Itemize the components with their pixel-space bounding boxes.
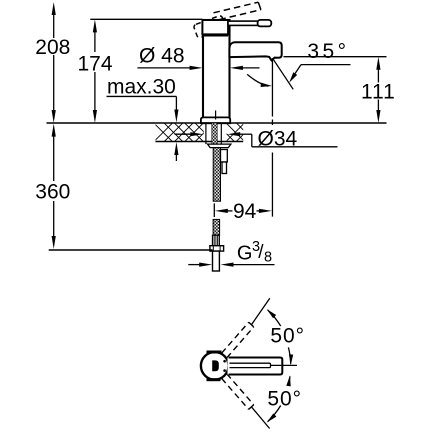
- dim 94: [213, 203, 215, 217]
- dim diameter 48: [137, 67, 192, 69]
- svg-text:Ø 48: Ø 48: [139, 44, 185, 67]
- washer: [208, 144, 231, 148]
- dim 174 line: [94, 30, 96, 112]
- top view lever slot: [230, 363, 271, 367]
- svg-text:8: 8: [264, 250, 272, 266]
- connection nut: [210, 246, 224, 251]
- flexible hose lower: [213, 219, 220, 235]
- shank tube: [206, 123, 221, 144]
- svg-text:360: 360: [35, 181, 70, 204]
- svg-text:Ø34: Ø34: [258, 128, 298, 151]
- 35 degree swing arc: [247, 74, 268, 86]
- max.30 leader: [107, 95, 177, 97]
- counter top line: [47, 122, 387, 124]
- svg-text:50°: 50°: [267, 387, 302, 410]
- dim 111: [284, 56, 387, 58]
- cap tilted position (dashed): [193, 15, 226, 38]
- top view angle line down: [251, 407, 269, 429]
- dim diameter 34: [175, 133, 193, 135]
- shank thread texture: [212, 123, 217, 144]
- cap seam: [202, 34, 228, 37]
- arc 50 bottom: [288, 376, 290, 384]
- cap: [202, 20, 228, 34]
- dim 208 line: [53, 13, 55, 112]
- hose crimp sleeve: [213, 235, 220, 246]
- svg-text:111: 111: [361, 81, 396, 104]
- outlet 35 degree direction line: [273, 58, 294, 89]
- svg-text:G: G: [237, 242, 253, 264]
- connection tube G3/8: [213, 251, 220, 271]
- svg-text:94: 94: [233, 200, 257, 223]
- top view lever centerline: [271, 364, 298, 366]
- body axis tick: [215, 111, 217, 120]
- top view dashed lever up: [222, 322, 254, 358]
- top view dashed lever down: [222, 374, 254, 410]
- top view body circle: [201, 352, 229, 380]
- 35 degree label leader: [301, 64, 351, 66]
- lever end knob: [258, 20, 272, 27]
- outlet stream centerline: [271, 58, 273, 216]
- svg-text:max.30: max.30: [107, 76, 176, 99]
- ext line cap top: [90, 18, 202, 20]
- svg-text:208: 208: [35, 36, 70, 59]
- top view angle line up: [251, 298, 269, 325]
- top view joystick: [212, 360, 219, 371]
- ext line connection end: [49, 249, 213, 251]
- svg-text:174: 174: [77, 52, 112, 75]
- counter hatch right: [216, 123, 255, 141]
- body base: [201, 117, 230, 123]
- hose side fitting: [221, 150, 228, 163]
- dim G3/8: [188, 264, 201, 266]
- flexible hose upper: [213, 148, 220, 202]
- top view lever: [228, 358, 283, 375]
- svg-text:50°: 50°: [270, 325, 305, 348]
- hose side fitting step: [222, 162, 227, 174]
- dim 360 line: [53, 135, 55, 238]
- lever raised position (dashed): [214, 2, 261, 19]
- lever bar: [228, 21, 259, 25]
- counter bottom line: [156, 141, 244, 143]
- spout: [229, 42, 281, 60]
- counter hatch left: [154, 123, 214, 141]
- arc 50 top: [268, 310, 281, 326]
- faucet body: [203, 20, 230, 123]
- svg-text:35°: 35°: [307, 40, 349, 63]
